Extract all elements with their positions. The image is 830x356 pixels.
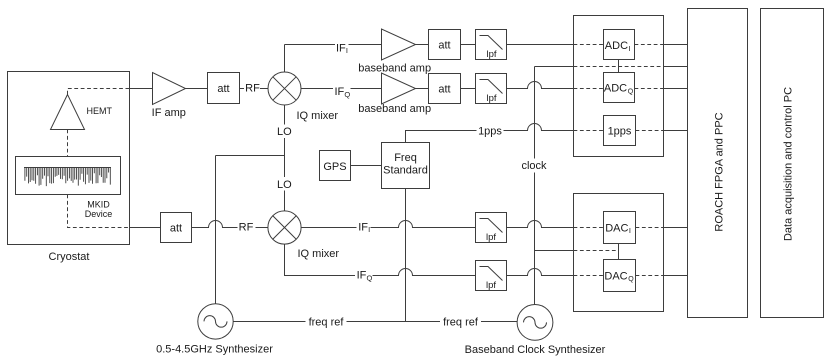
wire dashed into ADC_I [574,44,664,46]
oscillator baseband clock synthesizer [517,305,553,341]
svg-text:IQ mixer: IQ mixer [297,110,339,122]
wire dashed MKID to cryostat lower edge [68,195,130,228]
svg-text:IF: IF [335,86,345,98]
filter lpf4 [476,261,507,292]
mixer U1 top IQ mixer [268,72,301,105]
wire dashed into DAC_Q [574,275,664,277]
svg-text:lpf: lpf [486,280,496,291]
wire dashed into ADC_Q [574,88,664,90]
svg-text:IF: IF [357,270,367,282]
svg-text:ROACH FPGA and PPC: ROACH FPGA and PPC [714,112,726,231]
wire IF amp to att1 [186,88,208,90]
amplifier baseband amp 1 (triangle) [382,29,416,60]
frequency standard box [382,143,430,189]
wire LO horizontal branch to synthesizer riser [216,155,285,157]
wire att4 to mixer2 with hop over LO riser and RF label gap [192,221,268,228]
filter lpf1 [476,30,507,61]
svg-text:Device: Device [85,209,113,219]
wire freq standard drop to freq ref line [405,189,407,322]
svg-text:RF: RF [239,222,254,234]
wire att2 to lpf1 [461,44,476,46]
svg-text:att: att [217,83,229,95]
control PC box [761,9,824,318]
svg-text:Baseband Clock Synthesizer: Baseband Clock Synthesizer [465,344,606,356]
svg-text:freq ref: freq ref [443,316,479,328]
svg-text:IF: IF [358,221,368,233]
wire ADC_I to ADC_Q connector [618,60,620,73]
ADC bank container box [574,16,664,157]
wire stub DAC_I to ROACH [664,227,688,229]
wire lpf2 to ADC bank with hop over clock line [507,82,574,89]
MKID resonator comb (barcode) [24,168,111,187]
MKID device box [16,157,121,195]
svg-text:DAC: DAC [605,222,628,234]
svg-text:HEMT: HEMT [87,106,113,116]
svg-text:Standard: Standard [383,165,428,177]
svg-text:ADC: ADC [604,83,627,95]
wire dashed clock row into DAC bank [574,250,619,252]
svg-text:I: I [346,46,348,55]
svg-text:IF: IF [336,42,346,54]
svg-text:ADC: ADC [605,40,628,52]
net label IF_I (top) [336,42,348,55]
attenuator att4 [161,213,192,243]
wire mixer1 top port up to IF_I row [284,45,286,73]
svg-text:LO: LO [277,179,292,191]
wire stub ADC_Q to ROACH [664,88,688,90]
svg-text:LO: LO [277,126,292,138]
wire amp1 to att2 [416,44,429,46]
svg-text:1pps: 1pps [608,125,632,137]
svg-text:GPS: GPS [323,161,346,173]
svg-text:Q: Q [628,276,634,283]
DAC_Q converter box [604,260,636,292]
net label IF_Q (bottom) [357,270,373,283]
wire dashed clock row through ADC bank [574,66,664,68]
oscillator 0.5-4.5GHz synthesizer [198,304,233,339]
wire clock vertical from baseband synthesizer with label gap [534,67,536,305]
wire att1 to mixer1 with RF label gap [240,88,269,90]
wire synthesizer1 riser [215,156,217,304]
1pps timing box [604,116,636,146]
svg-text:Data acquisition and control P: Data acquisition and control PC [783,87,795,241]
mixer U2 bottom IQ mixer [268,211,301,244]
svg-text:RF: RF [245,83,260,95]
wire clock branch to DAC bank [535,250,574,252]
svg-text:1pps: 1pps [478,126,502,138]
filter lpf3 [476,213,507,244]
wire LO vertical between mixers with LO labels [284,105,286,211]
wire att3 to lpf2 [461,88,476,90]
GPS receiver box [320,151,351,181]
wire dashed into 1pps box [574,130,664,132]
svg-text:baseband amp: baseband amp [358,103,431,115]
svg-text:IF amp: IF amp [152,107,186,119]
wire DAC_I to DAC_Q connector [618,244,620,260]
svg-text:Q: Q [367,273,373,282]
svg-text:Freq: Freq [394,152,417,164]
wire mixer1 right port to baseband amp2 with label gap [301,88,382,90]
svg-text:I: I [629,226,631,235]
svg-text:att: att [438,39,450,51]
wire 1pps from Freq Standard top [406,124,574,143]
amplifier IF amp (triangle) [153,73,186,105]
wire dashed into DAC_I [574,227,664,229]
svg-text:Cryostat: Cryostat [49,251,90,263]
amplifier HEMT (triangle) [51,95,85,130]
attenuator att1 [208,73,240,104]
ADC_Q converter box [604,73,635,103]
svg-text:att: att [170,222,182,234]
svg-text:baseband amp: baseband amp [358,62,431,74]
wire stub 1pps to ROACH [664,130,688,132]
svg-text:0.5-4.5GHz Synthesizer: 0.5-4.5GHz Synthesizer [156,344,273,356]
wire cryostat to att4 [130,227,161,229]
svg-text:lpf: lpf [486,49,496,60]
wire amp2 to att3 [416,88,429,90]
wire freq ref line with label gaps [233,321,517,323]
wire lpf3 to DAC bank with hop over clock line [507,221,574,228]
svg-text:clock: clock [521,160,547,172]
wire stub clock row to ROACH [664,66,688,68]
attenuator att2 [429,30,461,60]
wire mixer2 IF_Q row to lpf4 with label gap and hop [285,244,476,275]
wire IF_I row to baseband amp1 with label gap [285,44,382,46]
wire lpf4 to DAC bank with hop over clock line [507,269,574,276]
cryostat enclosure box [8,72,130,245]
svg-text:freq ref: freq ref [309,316,345,328]
svg-text:lpf: lpf [486,93,496,104]
wire lpf1 to ADC bank [507,44,574,46]
filter lpf2 [476,74,507,105]
DAC_I converter box [604,212,636,244]
svg-text:Q: Q [628,88,634,95]
wire stub DAC_Q to ROACH [664,275,688,277]
svg-text:att: att [438,83,450,95]
wire dashed HEMT output to cryostat edge [68,89,130,95]
ADC_I converter box [604,30,635,60]
net label IF_I (bottom) [358,221,370,234]
DAC bank container box [574,194,664,312]
svg-text:MKID: MKID [87,200,110,210]
ROACH FPGA board box [688,9,748,318]
wire clock top branch to ADC bank [535,66,574,68]
attenuator att3 [429,74,461,104]
wire dashed MKID to HEMT input [67,130,69,157]
net label IF_Q (top) [335,86,351,99]
wire stub ADC_I to ROACH [664,44,688,46]
amplifier baseband amp 2 (triangle) [382,73,416,104]
svg-text:IQ mixer: IQ mixer [298,248,340,260]
svg-text:I: I [629,44,631,53]
svg-text:I: I [368,225,370,234]
wire cryostat to IF amp [130,88,153,90]
wire GPS to Freq Standard [351,165,382,167]
svg-text:DAC: DAC [604,270,627,282]
svg-text:Q: Q [344,90,350,99]
wire mixer2 IF_I row to lpf3 with label gap and hop over freq-standard drop [301,221,475,228]
svg-text:lpf: lpf [486,232,496,243]
